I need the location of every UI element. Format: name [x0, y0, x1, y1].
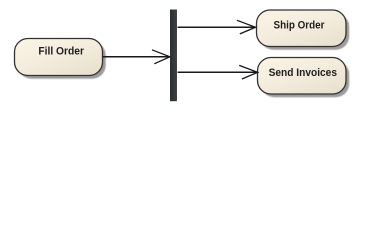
flow arrow fork to Send Invoices : wire	[178, 71, 258, 73]
svg-text:Ship Order: Ship Order	[274, 20, 326, 32]
activity node Fill Order shadow	[18, 42, 106, 79]
flow arrow fork to Ship Order : open arrowhead	[237, 20, 256, 34]
activity node Send Invoices shadow	[261, 61, 350, 97]
flow arrow Fill Order to fork : wire	[103, 56, 170, 58]
svg-text:Send Invoices: Send Invoices	[269, 67, 337, 79]
activity node Send Invoices	[258, 58, 347, 95]
activity node Fill Order	[15, 39, 103, 76]
fork bar	[170, 10, 177, 102]
activity node Ship Order	[257, 10, 347, 47]
svg-text:Fill Order: Fill Order	[38, 46, 84, 58]
flow arrow fork to Ship Order : wire	[178, 26, 256, 28]
flow arrow fork to Send Invoices : open arrowhead	[239, 65, 258, 79]
flow arrow Fill Order to fork : open arrowhead	[152, 50, 170, 64]
activity node Ship Order shadow	[260, 13, 350, 50]
